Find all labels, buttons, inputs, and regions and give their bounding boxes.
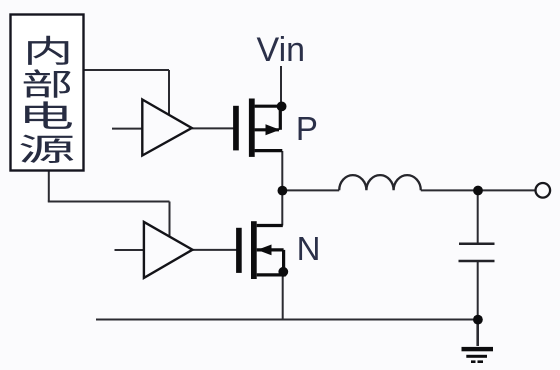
wire lower buffer top drop (169, 202, 171, 241)
junction dot switch node (278, 186, 288, 196)
transistor Q2 NMOS: channel bar (251, 221, 257, 279)
text char 电 (dian) (25, 101, 72, 129)
ground bar 3 dashes (471, 360, 476, 363)
junction dot rail/cap node (473, 315, 483, 325)
Q2 body stub (middle) (257, 248, 284, 251)
Q2 drain stub (top) (257, 224, 283, 227)
text char 源 (yuan) (20, 135, 73, 163)
Q2 body tie vertical (282, 250, 285, 272)
capacitor C1 top plate (459, 243, 495, 246)
Q1 body stub (middle) (255, 128, 279, 131)
Q1 drain stub (bottom) (255, 149, 283, 152)
ground bar 1 (462, 347, 494, 351)
wire upper buffer output to P gate (192, 127, 234, 129)
transistor Q1 PMOS: gate bar (233, 106, 239, 151)
wire upper buffer top drop (168, 70, 170, 118)
capacitor C1 bottom plate (459, 260, 495, 263)
wire cap bottom to rail (477, 261, 479, 320)
wire upper buffer input stub (112, 128, 144, 130)
wire rail node to ground (476, 320, 479, 347)
transistor Q1 PMOS: channel bar (249, 99, 255, 157)
wire output node to terminal (478, 189, 536, 191)
Q2 source stub (bottom) (257, 273, 286, 276)
wire N source down to rail (282, 275, 284, 320)
Q2 body arrow (points left) (257, 245, 271, 256)
svg-text:P: P (296, 110, 318, 147)
junction dot output node (473, 186, 483, 196)
transistor Q2 NMOS: gate bar (236, 228, 242, 273)
Q1 body arrow (points right) (266, 124, 281, 135)
text char 内 (nei) (28, 36, 68, 65)
Q1 source stub (top) (255, 105, 282, 108)
svg-text:Vin: Vin (257, 31, 306, 69)
wire lower buffer input stub (115, 249, 146, 251)
ground bar 2 (466, 355, 487, 358)
wire lower buffer horizontal (48, 201, 170, 203)
inductor L1 (339, 175, 421, 190)
junction dot Vin/P source (277, 102, 287, 112)
svg-text:N: N (297, 230, 321, 267)
Q1 body tie vertical (279, 106, 282, 130)
wire switch node to inductor (282, 189, 339, 191)
wire Vin drop (280, 66, 282, 107)
wire output node down to cap (477, 190, 479, 243)
wire box to upper buffer horizontal (84, 69, 170, 71)
driver buffer A1 (upper) (142, 100, 192, 156)
text char 部 (bu) (24, 69, 71, 97)
wire box bottom drop (48, 171, 50, 202)
driver buffer A2 (lower) (144, 222, 193, 278)
wire inductor to output node (421, 189, 478, 191)
wire P drain to switch node to N drain (281, 151, 283, 226)
junction dot N source (278, 267, 288, 277)
output terminal circle (536, 183, 551, 198)
wire lower buffer output to N gate (193, 249, 237, 251)
block: internal power supply box (11, 15, 84, 171)
wire bottom rail (96, 319, 478, 321)
